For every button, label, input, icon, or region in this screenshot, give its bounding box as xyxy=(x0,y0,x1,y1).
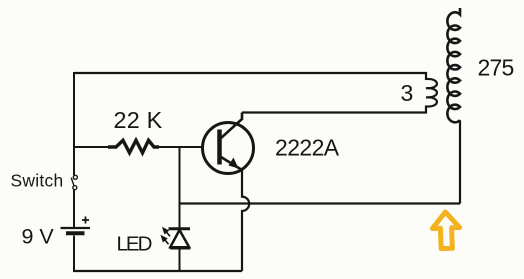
svg-text:2222A: 2222A xyxy=(275,135,340,161)
svg-text:Switch: Switch xyxy=(11,171,64,191)
svg-text:LED: LED xyxy=(117,233,152,256)
svg-text:22 K: 22 K xyxy=(114,107,163,133)
svg-text:275: 275 xyxy=(478,55,514,81)
svg-text:3: 3 xyxy=(401,80,414,106)
svg-text:9 V: 9 V xyxy=(22,225,55,249)
